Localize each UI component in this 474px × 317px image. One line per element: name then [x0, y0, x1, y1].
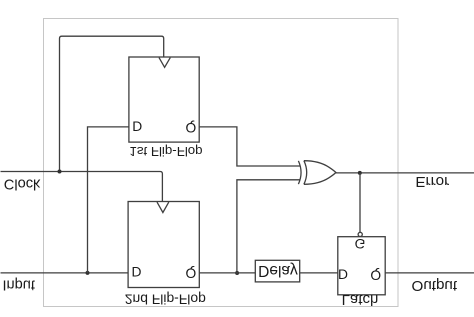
wire: XOR output / error line	[336, 172, 474, 174]
svg-text:2nd Flip-Flop: 2nd Flip-Flop	[125, 291, 206, 307]
XOR gate U3	[298, 161, 336, 185]
svg-text:Output: Output	[412, 277, 458, 294]
svg-text:Latch: Latch	[342, 291, 379, 308]
wire: latch Q to output	[385, 272, 474, 274]
node: input junction	[86, 271, 90, 275]
border frame	[44, 19, 399, 307]
flip-flop U2 clock wedge	[157, 202, 169, 212]
svg-text:D: D	[132, 264, 142, 279]
svg-text:D: D	[132, 118, 142, 133]
flip-flop U1 clock wedge	[159, 58, 170, 68]
svg-text:1st Flip-Flop: 1st Flip-Flop	[129, 144, 202, 159]
svg-text:D: D	[338, 266, 348, 281]
flip-flop U2 box	[128, 202, 199, 288]
svg-text:Delay: Delay	[258, 262, 298, 279]
wire: 2nd flip-flop Q to delay	[199, 272, 255, 274]
node: delay junction	[235, 271, 239, 275]
svg-text:Q: Q	[186, 120, 197, 135]
svg-text:Q: Q	[370, 267, 381, 282]
node: clock junction	[58, 170, 62, 174]
latch gate bubble	[358, 232, 362, 236]
wire: input line to 2nd flip-flop D	[1, 272, 129, 274]
svg-text:Error: Error	[415, 173, 449, 190]
flip-flop U1 box	[129, 57, 199, 142]
wire: Clock line	[1, 172, 163, 202]
node: error junction	[358, 171, 362, 175]
svg-text:Clock: Clock	[4, 176, 41, 192]
svg-text:G: G	[355, 236, 366, 251]
wire: XOR input 2 riser	[237, 180, 300, 273]
wire: 1st flip-flop Q to XOR input 1	[199, 127, 300, 166]
svg-text:Input: Input	[3, 276, 35, 292]
wire: clock loop to 1st flip-flop	[60, 36, 164, 171]
wire: error to latch gate	[359, 173, 361, 232]
delay box	[255, 260, 299, 282]
latch box	[338, 237, 385, 295]
wire: input riser to 1st flip-flop D	[88, 127, 129, 273]
svg-text:Q: Q	[186, 265, 197, 280]
wire: delay to latch D	[300, 272, 338, 274]
